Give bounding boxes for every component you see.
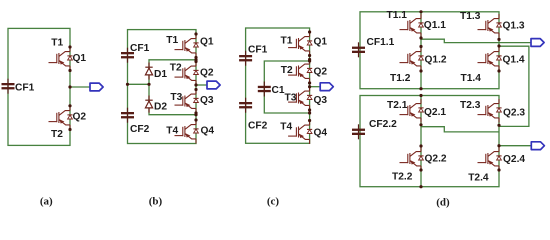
labels T2 Q2 (c) (281, 65, 328, 77)
svg-text:T2: T2 (281, 65, 293, 76)
labels T2.2 Q2.2 (392, 153, 447, 182)
diode D2 (145, 96, 152, 113)
svg-text:T1.1: T1.1 (387, 10, 408, 21)
labels T1.3 Q1.3 (460, 11, 525, 32)
capacitor CF1 (panel b) (121, 43, 150, 63)
labels T2.1 Q2.1 (387, 100, 446, 118)
diode D1 (145, 63, 152, 80)
port: output 2 (d) (531, 142, 544, 150)
transistor T3 (c) (IGBT symbol) (288, 87, 312, 111)
labels T1.1 Q1.1 (387, 10, 447, 31)
svg-text:Q2: Q2 (200, 67, 214, 78)
transistor T1.1 (IGBT symbol) (400, 14, 424, 38)
transistor T1.3 (IGBT symbol) (478, 14, 502, 38)
wire: panel (c) DC-bus loop (246, 28, 310, 143)
wire: cell 2 output stub (d) (499, 145, 531, 147)
svg-text:(d): (d) (436, 197, 450, 209)
capacitor C1 (flying, panel c) (258, 82, 285, 97)
svg-text:CF1.1: CF1.1 (367, 37, 395, 48)
svg-text:Q1: Q1 (73, 53, 87, 64)
wire: midpoint tap (b) (128, 83, 150, 85)
svg-text:Q1.2: Q1.2 (425, 55, 447, 66)
port: output (b) (207, 81, 220, 89)
svg-text:Q2.3: Q2.3 (503, 107, 525, 118)
svg-text:T3: T3 (285, 93, 297, 104)
capacitor CF1 (panel c) (239, 45, 267, 66)
wire: output stub (c) (310, 86, 321, 88)
junction dots (b) (126, 32, 198, 121)
transistor T1 (b) (IGBT symbol) (175, 34, 199, 58)
svg-text:CF1: CF1 (15, 83, 35, 94)
wire: cell 1 left leg (d) (420, 12, 422, 89)
wire: cell 1 right midpoint down-link (d) (499, 46, 529, 126)
labels T3 Q3 (c) (285, 93, 328, 107)
capacitor CF1 (panel a) (2, 79, 35, 94)
svg-text:Q3: Q3 (314, 95, 328, 106)
labels T2.3 Q2.3 (460, 100, 525, 118)
svg-text:T4: T4 (166, 126, 178, 137)
svg-text:T1.4: T1.4 (461, 73, 482, 84)
svg-text:T2.1: T2.1 (387, 100, 408, 111)
capacitor CF2 (panel c) (239, 98, 267, 132)
svg-text:T2: T2 (51, 129, 63, 140)
svg-text:(b): (b) (149, 195, 163, 207)
svg-text:Q2: Q2 (73, 112, 87, 123)
svg-text:Q4: Q4 (201, 126, 215, 137)
wire: H-bridge cell 1 frame (d) (360, 12, 499, 89)
junction dots cell 2 (d) (419, 94, 500, 188)
labels T2 Q2 (b) (170, 62, 214, 78)
svg-text:Q1: Q1 (200, 37, 214, 48)
svg-text:T1: T1 (51, 38, 63, 49)
svg-text:CF2: CF2 (248, 121, 268, 132)
labels T1.4 Q1.4 (461, 55, 525, 85)
svg-text:C1: C1 (272, 85, 285, 96)
svg-text:T1: T1 (281, 35, 293, 46)
labels T1 Q1 (b) (166, 35, 214, 48)
wire: cell 2 left leg (d) (420, 96, 422, 187)
labels T1.2 Q1.2 (390, 55, 447, 84)
port: output (c) (320, 83, 333, 91)
svg-text:Q2: Q2 (314, 66, 328, 77)
wire: output stub (a) (70, 86, 90, 88)
svg-text:T1.3: T1.3 (460, 11, 481, 22)
svg-text:Q1.1: Q1.1 (424, 20, 446, 31)
labels T4 Q4 (c) (280, 122, 327, 139)
svg-text:Q2.2: Q2.2 (425, 153, 447, 164)
svg-text:T1: T1 (166, 35, 178, 46)
capacitor CF2.2 (d) (352, 119, 397, 140)
port: output 1 (d) (531, 39, 544, 47)
transistor T3 (b) (IGBT symbol) (175, 90, 199, 114)
svg-text:CF2.2: CF2.2 (369, 119, 397, 130)
svg-text:(a): (a) (40, 195, 53, 207)
transistor T1 (c) (IGBT symbol) (288, 32, 312, 56)
svg-text:CF2: CF2 (130, 124, 150, 135)
junction dots (c) (308, 30, 311, 122)
svg-text:T2.3: T2.3 (460, 100, 481, 111)
labels T3 Q3 (b) (170, 92, 214, 106)
labels T1 Q1 (c) (281, 35, 328, 47)
transistor T2 (b) (IGBT symbol) (175, 62, 199, 86)
svg-text:T4: T4 (280, 122, 292, 133)
transistor T4 (c) (IGBT symbol) (288, 121, 312, 145)
transistor T2.3 (IGBT symbol) (478, 99, 502, 123)
svg-text:CF1: CF1 (130, 43, 150, 54)
labels T4 Q4 (b) (166, 126, 214, 137)
transistor T4 (b) (IGBT symbol) (175, 120, 199, 144)
transistor T2 (c) (IGBT symbol) (288, 60, 312, 84)
svg-text:Q1.3: Q1.3 (503, 20, 525, 31)
capacitor CF2 (panel b) (121, 108, 150, 135)
wire: panel (a) DC-bus loop (8, 28, 70, 145)
transistor T2.4 (IGBT symbol) (478, 147, 502, 171)
svg-text:T2: T2 (170, 62, 182, 73)
capacitor CF1.1 (d) (352, 37, 395, 57)
svg-text:(c): (c) (267, 195, 280, 207)
svg-text:D2: D2 (154, 102, 167, 113)
wire: output stub (b) (196, 84, 207, 86)
svg-text:D1: D1 (154, 69, 167, 80)
labels T2.4 Q2.4 (468, 154, 525, 184)
wire: clamp-diode branch (b) (149, 60, 196, 115)
transistor T2.1 (IGBT symbol) (400, 99, 424, 123)
svg-text:Q2.1: Q2.1 (424, 107, 446, 118)
port: output (a) (90, 83, 103, 91)
svg-text:CF1: CF1 (248, 45, 268, 56)
pin junction dots (a) (68, 45, 71, 131)
svg-text:Q4: Q4 (314, 128, 328, 139)
wire: panel (b) DC-bus loop (128, 30, 197, 144)
svg-text:Q2.4: Q2.4 (503, 154, 525, 165)
svg-text:T2.4: T2.4 (468, 172, 489, 183)
svg-text:Q1: Q1 (314, 37, 328, 48)
transistor T1.4 (IGBT symbol) (478, 47, 502, 71)
wire: cell 1 left midpoint to port (d) (421, 39, 531, 42)
svg-text:Q3: Q3 (200, 95, 214, 106)
wire: flying-capacitor loop (c) (264, 61, 309, 113)
wire: H-bridge cell 2 frame (d) (360, 96, 499, 187)
wire: cell 2 left midpoint link (d) (421, 127, 499, 132)
junction dots cell 1 (d) (419, 10, 500, 90)
svg-text:T3: T3 (170, 92, 182, 103)
transistor T2 (IGBT symbol) (49, 106, 73, 130)
node: output junction (a) (68, 85, 71, 88)
svg-text:T2.2: T2.2 (392, 171, 413, 182)
svg-text:Q1.4: Q1.4 (503, 55, 525, 66)
svg-text:T1.2: T1.2 (390, 73, 411, 84)
transistor T1 (IGBT symbol) (49, 47, 73, 71)
transistor T2.2 (IGBT symbol) (400, 147, 424, 171)
transistor T1.2 (IGBT symbol) (400, 47, 424, 71)
